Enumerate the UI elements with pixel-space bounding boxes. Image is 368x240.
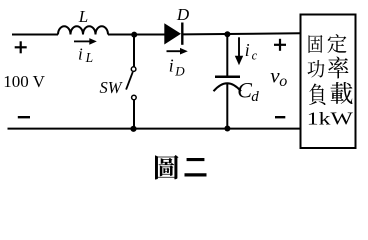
svg-text:i: i	[78, 45, 83, 64]
svg-text:o: o	[279, 73, 287, 90]
svg-text:D: D	[176, 5, 190, 24]
svg-text:L: L	[78, 7, 88, 26]
svg-text:d: d	[251, 89, 259, 105]
load text char 功	[307, 60, 324, 77]
output + label	[274, 39, 286, 51]
wire inductor to diode anode	[108, 34, 166, 36]
wire bottom rail	[8, 128, 301, 130]
current arrow iD	[167, 48, 188, 55]
node D junction dot (bottom rail / capacitor)	[224, 126, 230, 132]
svg-text:C: C	[237, 77, 252, 102]
caption char 二	[184, 158, 206, 176]
output - label	[275, 116, 285, 118]
load box	[301, 15, 356, 149]
svg-text:100 V: 100 V	[3, 72, 45, 91]
node C junction dot (bottom rail / switch)	[130, 126, 136, 132]
inductor L	[58, 26, 108, 34]
node A junction dot (top rail / switch)	[131, 32, 137, 38]
capacitor Cd	[214, 77, 242, 91]
node B junction dot (top rail / capacitor)	[224, 31, 230, 37]
svg-text:1kW: 1kW	[307, 108, 353, 128]
load text char 定	[327, 34, 346, 53]
wire switch branch upper	[133, 35, 135, 67]
wire capacitor branch upper	[226, 34, 228, 76]
wire diode cathode to load box	[183, 33, 301, 34]
svg-text:c: c	[252, 49, 258, 63]
current arrow ic	[235, 37, 243, 65]
wire capacitor branch lower	[226, 84, 228, 129]
diode D	[164, 23, 182, 45]
wire top rail left (source + to inductor)	[12, 34, 58, 36]
source + terminal	[15, 41, 27, 53]
wire switch branch lower	[133, 100, 135, 129]
load text char 固	[308, 35, 322, 53]
switch SW	[126, 67, 136, 100]
svg-text:L: L	[85, 50, 94, 65]
load text char 率	[328, 56, 349, 78]
source - terminal	[18, 116, 30, 118]
load text char 載	[331, 82, 353, 104]
caption char 圖	[155, 155, 179, 179]
svg-text:i: i	[169, 56, 174, 76]
load text char 負	[309, 83, 326, 104]
svg-text:D: D	[174, 64, 185, 79]
current arrow iL	[74, 38, 97, 45]
svg-text:SW: SW	[100, 78, 123, 97]
svg-text:i: i	[245, 40, 250, 60]
